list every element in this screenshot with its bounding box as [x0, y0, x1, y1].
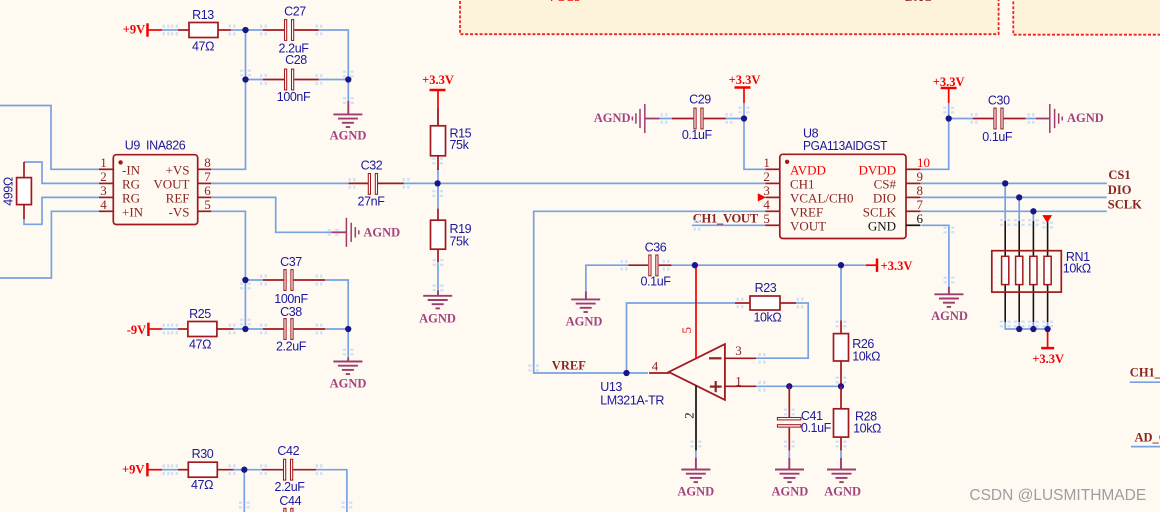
wire node to C30 left — [949, 118, 973, 120]
wire +3.3V node down-left to U8 pin10 DVDD — [920, 103, 948, 169]
black line RN1 element 2 — [1018, 221, 1020, 322]
svg-text:+VCC5: +VCC5 — [540, 0, 580, 4]
wire 499-ohm bottom to U9 pin 3 — [24, 197, 99, 224]
wire R23 right to op-amp pin3 — [756, 303, 808, 358]
svg-text:DVDD: DVDD — [858, 162, 896, 177]
svg-text:5: 5 — [763, 211, 770, 226]
U13 pin 3 stub — [725, 357, 756, 359]
svg-text:VOUT: VOUT — [790, 218, 826, 233]
node C29/+3.3V — [741, 115, 747, 121]
wire net stub AD_CS at right edge — [1131, 446, 1160, 448]
power +9V feed to R13 — [148, 29, 163, 31]
svg-text:-9V: -9V — [127, 323, 146, 337]
wire U8 pin8 DIO to DIO label — [920, 196, 1106, 198]
U9 pin 6 REF — [198, 196, 211, 198]
wire R25 right to node — [234, 328, 246, 330]
svg-text:C30: C30 — [988, 93, 1010, 107]
svg-text:AGND: AGND — [363, 225, 400, 239]
capacitor C38 — [263, 328, 284, 330]
node C38 rail — [242, 326, 248, 332]
ground AGND sideways (U9 REF) — [332, 231, 347, 233]
U8 pin 1 AVDD — [766, 168, 780, 170]
node +3.3V/R26 — [838, 262, 844, 268]
wire C28 right to corner node — [319, 79, 349, 81]
wire R19 bottom to AGND — [437, 262, 439, 291]
svg-text:RG: RG — [122, 190, 140, 205]
svg-text:75k: 75k — [450, 235, 470, 249]
wire C27 right corner down to C28 node — [319, 30, 349, 80]
svg-text:1: 1 — [100, 155, 107, 170]
U9 pin 5 -VS — [198, 210, 211, 212]
wire node to C28 left — [246, 79, 264, 81]
RN1 element 4 — [1044, 256, 1051, 284]
svg-text:499Ω: 499Ω — [2, 177, 16, 206]
svg-text:CH1_O: CH1_O — [1130, 366, 1160, 380]
svg-text:AGND: AGND — [931, 309, 968, 323]
U13 pin 2 power stub — [695, 386, 697, 451]
wire R30 right to node — [234, 469, 245, 471]
wire C37 right corner down to C38 node — [325, 280, 348, 329]
ground AGND under C38 — [347, 357, 349, 361]
svg-text:2: 2 — [763, 169, 770, 184]
U9 pin 3 RG — [99, 196, 113, 198]
wire R23 feedback loop left — [627, 303, 736, 373]
svg-text:R23: R23 — [755, 281, 777, 295]
U13 pin 1 stub — [725, 385, 756, 387]
svg-text:7: 7 — [204, 169, 211, 184]
black line RN1 element 4 — [1047, 222, 1049, 322]
svg-text:AGND: AGND — [677, 485, 714, 499]
U9 pin 8 +VS — [198, 168, 211, 170]
svg-text:3: 3 — [763, 183, 770, 198]
node R26/R28 — [838, 383, 844, 389]
svg-text:3: 3 — [735, 343, 742, 358]
svg-text:C28: C28 — [285, 53, 307, 67]
wire stubs to bottom AGNDs — [696, 450, 841, 457]
U8 pin 7 SCLK — [906, 210, 920, 212]
svg-text:10kΩ: 10kΩ — [753, 311, 781, 325]
power port +9V (bottom) — [146, 463, 149, 476]
wire C36 right / +3.3V rail to R26 top — [671, 264, 866, 266]
svg-text:5: 5 — [679, 327, 694, 334]
wire node to C38 left — [245, 328, 263, 330]
power +3.3V stub over R15 — [437, 90, 439, 107]
node VREF/R23 — [623, 370, 629, 376]
ground AGND sideways right of C30 — [1036, 118, 1050, 120]
svg-text:8: 8 — [204, 155, 211, 170]
svg-text:CH1_VOUT: CH1_VOUT — [693, 211, 759, 225]
svg-text:47Ω: 47Ω — [191, 478, 213, 492]
ground AGND under C41 — [788, 458, 790, 470]
U8 pin 3 VCAL/CH0 — [766, 196, 780, 198]
svg-text:AGND: AGND — [824, 485, 861, 499]
resistor R19 — [437, 209, 439, 221]
black line RN1 element 1 — [1004, 221, 1006, 322]
svg-text:3: 3 — [100, 183, 107, 198]
wire RN1 common to +3.3V bar — [1047, 329, 1049, 348]
svg-text:0.1uF: 0.1uF — [982, 130, 1013, 144]
svg-text:6: 6 — [204, 183, 211, 198]
programmable gain amp U8 PGA113AIDGST body — [780, 154, 906, 238]
svg-text:1: 1 — [763, 155, 770, 170]
svg-text:100nF: 100nF — [274, 292, 308, 306]
power +3.3V stub over C29 node — [743, 88, 745, 104]
svg-text:C27: C27 — [284, 5, 306, 19]
resistor network RN1 box — [992, 251, 1062, 292]
svg-text:AGND: AGND — [1067, 111, 1104, 125]
svg-text:PGA113AIDGST: PGA113AIDGST — [803, 139, 888, 153]
svg-text:10kΩ: 10kΩ — [1063, 262, 1091, 276]
node C30/+3.3V — [946, 115, 952, 121]
svg-text:4: 4 — [763, 197, 770, 212]
svg-text:C37: C37 — [280, 255, 302, 269]
svg-text:C38: C38 — [280, 305, 302, 319]
RN1 element 3 — [1030, 256, 1037, 284]
capacitor C36 — [629, 264, 649, 266]
wire U9 pin6 REF to sideways AGND — [211, 197, 332, 232]
svg-text:LM321A-TR: LM321A-TR — [600, 394, 664, 408]
wire R26 top riser — [840, 265, 842, 320]
wire C30 right to sideways AGND — [1026, 118, 1037, 120]
U8 pin 9 CS# — [906, 182, 920, 184]
svg-text:GND: GND — [868, 218, 896, 233]
svg-text:+3.3V: +3.3V — [1032, 352, 1064, 366]
resistor R30 — [178, 469, 188, 471]
power -9V feed to R25 — [148, 328, 162, 330]
ground AGND under C28 — [347, 101, 349, 114]
svg-text:CH1: CH1 — [790, 176, 815, 191]
wire C36 left net with AGND drop — [586, 265, 629, 291]
node DIO/RN1 — [1016, 194, 1022, 200]
red arrow marker on RN1 pin — [1043, 216, 1051, 222]
svg-text:R25: R25 — [189, 307, 211, 321]
U13 pin 5 power stub — [695, 265, 697, 358]
wire 499-ohm top to U9 pin 2 — [24, 162, 99, 183]
wire U9 pin8 +VS riser to R13/C27 node — [211, 30, 246, 169]
wire C29 right to +3.3V node, down to U8 pin1 AVDD — [726, 103, 766, 169]
wire RN1 bottom bus — [1005, 322, 1047, 329]
svg-text:C42: C42 — [277, 444, 299, 458]
capacitor C28 — [263, 79, 284, 81]
svg-text:27nF: 27nF — [358, 195, 386, 209]
U8 pin 10 DVDD — [906, 168, 920, 170]
op-amp U9 INA826 body — [113, 155, 197, 225]
svg-text:+VS: +VS — [166, 162, 190, 177]
ground AGND under U13 pin2 — [695, 458, 697, 470]
svg-text:DIO: DIO — [1108, 183, 1132, 197]
power port +9V (top left) — [146, 23, 149, 36]
svg-text:75k: 75k — [450, 138, 470, 152]
wire node to C37 left — [245, 279, 263, 281]
U8 pin 5 VOUT — [766, 224, 780, 226]
ground AGND under C36 left — [585, 291, 587, 299]
svg-text:0.1uF: 0.1uF — [682, 128, 713, 142]
svg-text:VREF: VREF — [790, 204, 823, 219]
svg-text:VREF: VREF — [552, 359, 586, 373]
svg-text:C44: C44 — [279, 494, 301, 508]
U9 pin 7 VOUT — [198, 182, 211, 184]
svg-text:SCLK: SCLK — [1108, 198, 1142, 212]
U8 pin 2 CH1 — [766, 182, 780, 184]
svg-text:4: 4 — [652, 359, 659, 374]
wire net stub CH1_O at right edge — [1130, 381, 1160, 383]
wire U9 pin7 VOUT to C32 — [211, 182, 349, 184]
svg-text:AGND: AGND — [419, 311, 456, 325]
node CS1/RN1 — [1002, 180, 1008, 186]
resistor R25 — [178, 328, 188, 330]
pin-1 dot marker U9 — [118, 160, 122, 164]
power port +3.3V right of R26 rail — [876, 259, 879, 272]
svg-text:10: 10 — [917, 155, 930, 170]
svg-text:-VS: -VS — [169, 204, 190, 219]
U9 pin 1 -IN — [99, 168, 113, 170]
node C36/pin5 — [692, 262, 698, 268]
wire R15 bottom to node to R19 top — [437, 169, 439, 209]
U8 pin 8 DIO — [906, 196, 920, 198]
svg-text:2: 2 — [681, 412, 696, 419]
node C38 right — [345, 326, 351, 332]
wire R25 left lead segment — [162, 328, 178, 330]
resistor R26 — [840, 320, 842, 333]
wire U8 pin6 GND to AGND — [922, 225, 949, 287]
svg-text:2: 2 — [100, 169, 107, 184]
capacitor C44 clipped at bottom — [284, 508, 286, 512]
wire C28 node down to AGND stub — [347, 80, 349, 102]
RN1 element 2 — [1016, 256, 1023, 284]
power port +3.3V under RN1 — [1041, 347, 1054, 350]
svg-text:AGND: AGND — [330, 129, 367, 143]
capacitor C41 — [788, 386, 790, 417]
svg-text:10kΩ: 10kΩ — [853, 421, 881, 435]
node pin1/C41 — [786, 383, 792, 389]
svg-text:10kΩ: 10kΩ — [852, 350, 880, 364]
svg-text:+3.3V: +3.3V — [422, 73, 454, 87]
capacitor C29 — [672, 118, 693, 120]
svg-text:CS1: CS1 — [1108, 168, 1130, 182]
wire to U9 pin 1 from left edge — [0, 106, 99, 170]
resistor R23 — [735, 302, 750, 304]
U13 pin 4 stub — [649, 372, 670, 374]
svg-text:U9 INA826: U9 INA826 — [125, 138, 186, 152]
power +9V feed to R30 — [147, 469, 162, 471]
svg-text:SCLK: SCLK — [863, 204, 897, 219]
U8 pin 4 VREF — [766, 210, 780, 212]
U9 pin 4 +IN — [99, 210, 113, 212]
svg-text:47Ω: 47Ω — [192, 39, 214, 53]
svg-text:REF: REF — [166, 190, 190, 205]
node CH1 divider — [434, 180, 440, 186]
wire R13 left lead segment — [162, 29, 178, 31]
svg-text:+IN: +IN — [122, 204, 144, 219]
svg-text:47Ω: 47Ω — [189, 338, 211, 352]
svg-text:C29: C29 — [689, 93, 711, 107]
svg-text:C36: C36 — [645, 241, 667, 255]
svg-text:4: 4 — [100, 197, 107, 212]
svg-text:DAC: DAC — [905, 0, 932, 4]
node C28 right — [345, 76, 351, 82]
wire op-amp pin1 to R26/R28 node — [756, 385, 841, 387]
svg-text:0.1uF: 0.1uF — [641, 274, 672, 288]
wire U8 pin9 CS# to CS1 label — [920, 182, 1106, 184]
U8 pin 6 GND — [906, 224, 920, 226]
svg-text:9: 9 — [917, 169, 924, 184]
wire C42 right corner down to bottom edge — [316, 470, 347, 512]
wire node down to bottom edge — [243, 470, 245, 512]
wire drop from SCLK node to RN1 — [1032, 211, 1034, 221]
U13 plus input marker — [710, 386, 722, 388]
svg-text:100nF: 100nF — [277, 90, 311, 104]
black line RN1 element 3 — [1032, 221, 1034, 322]
svg-text:AGND: AGND — [566, 315, 603, 329]
node C28 left — [242, 76, 248, 82]
resistor R15 — [437, 107, 439, 126]
wire drop from DIO node to RN1 — [1018, 197, 1020, 221]
RN1 element 1 — [1002, 256, 1009, 284]
node R30/C42 — [241, 467, 247, 473]
svg-text:RG: RG — [122, 176, 140, 191]
svg-text:R13: R13 — [192, 8, 214, 22]
ground AGND sideways left of C29 — [644, 104, 646, 133]
svg-text:AGND: AGND — [771, 485, 808, 499]
wire node to C27 — [246, 29, 264, 31]
svg-text:+3.3V: +3.3V — [881, 259, 913, 273]
capacitor C42 — [262, 469, 284, 471]
ground AGND under R28 — [840, 458, 842, 470]
wire to U9 pin 4 to left edge — [0, 211, 99, 278]
U9 pin 2 RG — [99, 182, 113, 184]
svg-text:0.1uF: 0.1uF — [801, 421, 832, 435]
resistor R28 — [840, 386, 842, 409]
svg-text:8: 8 — [917, 183, 924, 198]
svg-text:6: 6 — [917, 211, 924, 226]
svg-text:+9V: +9V — [123, 23, 145, 37]
wire R13 right to node — [231, 29, 246, 31]
node R13/C27 — [242, 27, 248, 33]
wire hotspot marks — [163, 25, 170, 36]
op-amp U13 triangle — [669, 344, 725, 400]
power +3.3V stub over C30 node — [948, 88, 950, 103]
svg-text:DIO: DIO — [873, 190, 896, 205]
ground AGND under R19 — [437, 291, 439, 296]
wire R30 left lead segment — [162, 469, 178, 471]
pin-1 dot marker U8 — [785, 160, 789, 164]
wire C32 to R15/R19 node to U8 pin2 CH1 — [404, 182, 766, 184]
wire U9 pin5 -VS down to C37/C38 rail — [211, 211, 245, 329]
svg-text:VCAL/CH0: VCAL/CH0 — [790, 190, 854, 205]
svg-text:R30: R30 — [192, 447, 214, 461]
svg-text:AVDD: AVDD — [790, 162, 826, 177]
wire CH1_VOUT net into U8 pin 5 — [692, 224, 766, 226]
wire +3.3V to R15 top — [437, 107, 439, 126]
capacitor C32 — [349, 182, 368, 184]
annotation box (top right, dashed red, cream fill) — [1013, 0, 1160, 35]
svg-text:1: 1 — [735, 374, 742, 389]
svg-text:+3.3V: +3.3V — [729, 73, 761, 87]
svg-text:U13: U13 — [600, 380, 622, 394]
svg-text:7: 7 — [917, 197, 924, 212]
node RN1 bus 3 — [1044, 326, 1050, 332]
svg-text:VOUT: VOUT — [153, 176, 189, 191]
svg-text:5: 5 — [204, 197, 211, 212]
svg-text:2.2uF: 2.2uF — [276, 340, 307, 354]
svg-text:2.2uF: 2.2uF — [275, 480, 306, 494]
capacitor C37 — [263, 279, 284, 281]
capacitor C27 — [263, 29, 284, 31]
svg-text:-IN: -IN — [122, 162, 141, 177]
red arrow into U8 pin 3 — [758, 194, 765, 201]
wire node to C42 left — [244, 469, 262, 471]
wire drop from CS1 node to RN1 — [1004, 183, 1006, 221]
capacitor C30 — [973, 118, 994, 120]
svg-text:AGND: AGND — [594, 111, 631, 125]
node -VS/C37 — [242, 277, 248, 283]
ground AGND under U8 GND — [948, 287, 950, 294]
svg-text:+9V: +9V — [122, 463, 144, 477]
node RN1 bus 1 — [1016, 326, 1022, 332]
U13 minus input marker — [709, 357, 722, 359]
node RN1 bus 2 — [1030, 326, 1036, 332]
wire VREF net from U8 pin4 to op-amp U13 — [534, 211, 766, 373]
wire U8 pin7 SCLK to SCLK label — [920, 210, 1106, 212]
svg-text:CS#: CS# — [874, 176, 897, 191]
svg-text:C32: C32 — [361, 159, 383, 173]
wire C38 node down to AGND stub — [347, 329, 349, 357]
resistor R13 — [189, 23, 218, 38]
annotation box (top, dashed red, cream fill) — [460, 0, 999, 34]
svg-text:CSDN @LUSMITHMADE: CSDN @LUSMITHMADE — [969, 487, 1146, 504]
svg-text:AGND: AGND — [330, 377, 367, 391]
node SCLK/RN1 — [1030, 208, 1036, 214]
wire AGND to C29 left — [660, 118, 672, 120]
resistor 499-ohm (gain set) — [23, 162, 25, 178]
wire C38 right to node — [325, 328, 348, 330]
svg-text:AD_CS: AD_CS — [1135, 431, 1160, 445]
power port -9V — [147, 323, 150, 336]
power +3.3V stub right of R26 rail — [866, 264, 877, 266]
